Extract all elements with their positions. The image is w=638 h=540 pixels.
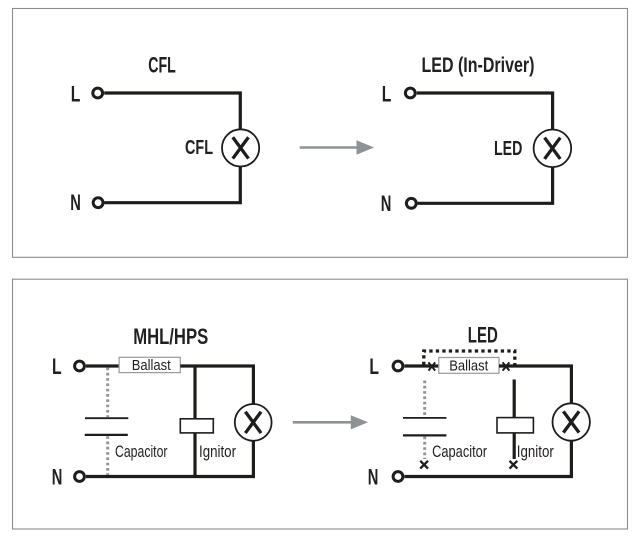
ignitor box (bottom-right) — [497, 418, 533, 433]
svg-text:N: N — [381, 191, 392, 216]
cut mark x1 (before ballast) — [428, 362, 435, 370]
capacitor C2 top lead (dotted, cut) — [423, 381, 426, 418]
arrow (bottom, MHL/HPS to LED) — [293, 415, 368, 429]
lamp X4 (LED retrofit) — [553, 403, 590, 440]
ignitor bottom lead (bottom-left) — [193, 433, 196, 477]
cut mark x4 (ignitor bottom) — [510, 461, 518, 469]
terminal N (bottom-left) — [75, 472, 85, 482]
terminal N (top-right) — [406, 198, 416, 208]
svg-text:CFL: CFL — [148, 53, 176, 78]
svg-text:LED: LED — [468, 323, 498, 348]
capacitor C1 top lead (dotted) — [106, 368, 109, 418]
ballast box (MHL/HPS) — [119, 357, 180, 372]
wire lamp to N terminal (top-right) — [418, 167, 553, 203]
svg-text:L: L — [52, 354, 62, 379]
wire lamp to N bus (bottom-right) — [405, 441, 572, 477]
svg-text:CFL: CFL — [185, 137, 213, 159]
ignitor top lead (bottom-right, cut) — [513, 380, 516, 418]
cut mark x2 (after ballast) — [503, 362, 510, 370]
svg-text:Capacitor: Capacitor — [115, 442, 168, 461]
wire lamp to N terminal (top-left) — [104, 166, 240, 202]
lamp X1 (CFL) — [222, 129, 259, 166]
svg-text:Ballast: Ballast — [132, 357, 172, 374]
svg-text:LED: LED — [494, 138, 522, 160]
terminal L (bottom-left) — [75, 361, 85, 371]
svg-text:L: L — [369, 354, 379, 379]
arrow (top, CFL to LED) — [300, 140, 374, 155]
wire ballast to lamp corner (bottom-right) — [499, 366, 571, 404]
terminal N (bottom-right) — [393, 472, 403, 482]
capacitor C1 bottom lead (dotted) — [106, 436, 109, 475]
ignitor bottom lead (bottom-right) — [513, 433, 516, 459]
wire ballast to lamp corner (bottom-left) — [180, 366, 253, 404]
wire lamp to N bus (bottom-left) — [86, 441, 253, 477]
lamp X3 (MHL/HPS) — [235, 404, 272, 441]
svg-text:N: N — [70, 190, 81, 215]
svg-text:Capacitor: Capacitor — [432, 442, 487, 461]
svg-text:N: N — [368, 464, 379, 489]
capacitor C2 bottom lead (dotted) — [423, 437, 426, 459]
terminal N (top-left) — [93, 198, 103, 208]
svg-text:Ignitor: Ignitor — [199, 442, 236, 461]
wire L terminal to lamp (top-left) — [104, 93, 240, 129]
cut mark x3 (capacitor bottom) — [420, 461, 428, 469]
ignitor box (bottom-left) — [180, 419, 213, 433]
terminal L (bottom-right) — [393, 361, 403, 371]
svg-text:MHL/HPS: MHL/HPS — [133, 324, 208, 349]
capacitor C2 plates — [403, 418, 446, 436]
wire L terminal to ballast (bottom-right) — [405, 364, 439, 367]
terminal L (top-left) — [93, 88, 103, 98]
wire branch to ignitor (bottom-left) — [193, 366, 196, 419]
lamp X2 (LED) — [534, 130, 572, 168]
svg-text:Ignitor: Ignitor — [517, 442, 554, 461]
wire L terminal to lamp (top-right) — [417, 93, 553, 130]
wire L terminal to ballast — [86, 364, 119, 367]
svg-text:N: N — [52, 464, 63, 489]
ballast removal dashed outline — [424, 351, 515, 365]
terminal L (top-right) — [405, 88, 415, 98]
capacitor C1 plates — [85, 418, 129, 435]
svg-text:LED (In-Driver): LED (In-Driver) — [422, 54, 535, 77]
svg-text:L: L — [382, 82, 392, 107]
svg-text:L: L — [71, 82, 81, 107]
ballast box (bottom-right) — [439, 358, 499, 374]
svg-text:Ballast: Ballast — [449, 357, 489, 374]
